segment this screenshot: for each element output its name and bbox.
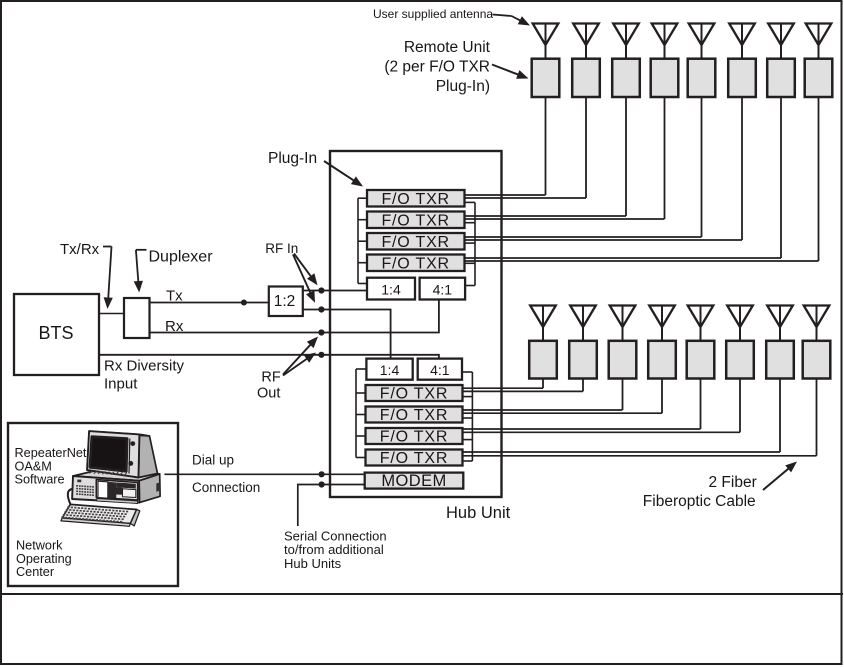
F/O TXR L4 bbox=[366, 450, 463, 467]
fiber pair from F/O TXR 6 (lower) bbox=[463, 410, 662, 413]
F/O TXR U1 bbox=[367, 190, 465, 208]
junction dot serial bbox=[319, 481, 325, 487]
junction dot RF In 1 bbox=[318, 287, 324, 293]
svg-text:Operating: Operating bbox=[16, 552, 72, 566]
F/O TXR U3 bbox=[367, 233, 465, 251]
fiber pair from F/O TXR 4 (upper) bbox=[465, 258, 819, 261]
fiber riser to remote unit B7 bbox=[779, 379, 781, 453]
F/O TXR U2 bbox=[367, 212, 465, 230]
svg-text:Dial up: Dial up bbox=[192, 453, 234, 468]
label Network Operating Center bbox=[16, 539, 72, 580]
left bus bracket (lower group) bbox=[356, 369, 366, 458]
remote unit antenna B6 (middle row) bbox=[726, 306, 754, 379]
label 2 Fiber Fiberoptic Cable with arrow bbox=[643, 462, 797, 511]
svg-text:F/O TXR: F/O TXR bbox=[381, 256, 449, 273]
NOC computer workstation bbox=[61, 431, 160, 526]
svg-text:Plug-In): Plug-In) bbox=[436, 78, 490, 95]
svg-text:F/O TXR: F/O TXR bbox=[381, 191, 449, 208]
F/O TXR U4 bbox=[367, 255, 465, 273]
combiner 4:1 (lower) bbox=[418, 359, 462, 380]
svg-text:F/O TXR: F/O TXR bbox=[380, 428, 448, 445]
right bus bracket (lower group) bbox=[462, 372, 472, 461]
svg-text:Rx: Rx bbox=[165, 318, 184, 335]
remote unit antenna A1 (top row) bbox=[532, 24, 560, 98]
fiber riser to remote unit B1 bbox=[542, 379, 544, 389]
svg-text:Network: Network bbox=[16, 539, 63, 553]
svg-text:Connection: Connection bbox=[192, 480, 260, 495]
svg-text:Input: Input bbox=[104, 376, 138, 393]
fiber pair from F/O TXR 8 (lower) bbox=[463, 452, 817, 456]
junction dot RF Out 1 bbox=[318, 329, 324, 335]
label Remote Unit (2 per F/O TXR Plug-In) with arrow bbox=[384, 39, 528, 95]
junction dot on Tx wire bbox=[241, 300, 247, 306]
remote unit antenna B8 (middle row) bbox=[803, 306, 831, 379]
svg-text:1:4: 1:4 bbox=[381, 282, 401, 298]
svg-text:2 Fiber: 2 Fiber bbox=[709, 474, 757, 491]
svg-text:4:1: 4:1 bbox=[433, 282, 453, 298]
remote unit antenna A7 (top row) bbox=[767, 24, 795, 98]
junction dot RF Out 2 bbox=[318, 352, 324, 358]
svg-text:MODEM: MODEM bbox=[381, 472, 446, 490]
F/O TXR L1 bbox=[366, 385, 463, 402]
label Serial Connection to/from additional Hub Units bbox=[284, 529, 387, 571]
svg-text:BTS: BTS bbox=[38, 323, 73, 343]
svg-text:Hub Units: Hub Units bbox=[284, 556, 342, 571]
fiber pair from F/O TXR 2 (upper) bbox=[465, 216, 665, 219]
F/O TXR L2 bbox=[366, 407, 463, 424]
remote unit antenna B4 (middle row) bbox=[648, 306, 676, 379]
fiber riser to remote unit A8 bbox=[818, 97, 820, 261]
BTS base transceiver station bbox=[14, 294, 99, 375]
fiber pair from F/O TXR 3 (upper) bbox=[465, 237, 743, 240]
remote unit antenna B3 (middle row) bbox=[609, 306, 637, 379]
svg-text:F/O TXR: F/O TXR bbox=[380, 407, 448, 424]
splitter 1:4 (lower) bbox=[366, 359, 412, 380]
label User supplied antenna with arrow bbox=[373, 7, 530, 26]
svg-text:F/O TXR: F/O TXR bbox=[381, 234, 449, 251]
svg-text:Rx Diversity: Rx Diversity bbox=[104, 358, 185, 375]
fiber riser to remote unit B6 bbox=[739, 379, 741, 433]
svg-text:RF In: RF In bbox=[265, 241, 298, 256]
right bus bracket (upper group) bbox=[465, 202, 476, 285]
svg-text:F/O TXR: F/O TXR bbox=[380, 385, 448, 402]
remote unit antenna A4 (top row) bbox=[651, 24, 679, 98]
modem MODEM bbox=[365, 472, 464, 490]
wire: 1:2 lower output to lower 1:4 (RF In 2) bbox=[303, 310, 391, 359]
fiber riser to remote unit B4 bbox=[661, 379, 663, 414]
network operating center box bbox=[8, 423, 178, 586]
fiber pair from F/O TXR 5 (lower) bbox=[463, 388, 583, 391]
remote unit antenna A6 (top row) bbox=[728, 24, 756, 98]
svg-text:Remote Unit: Remote Unit bbox=[404, 39, 491, 56]
fiber riser to remote unit A1 bbox=[545, 97, 547, 195]
svg-text:(2 per F/O TXR: (2 per F/O TXR bbox=[384, 59, 490, 76]
remote unit antenna B5 (middle row) bbox=[687, 306, 715, 379]
label Duplexer with arrow bbox=[134, 249, 214, 293]
fiber riser to remote unit B3 bbox=[622, 379, 624, 411]
svg-text:Fiberoptic Cable: Fiberoptic Cable bbox=[643, 493, 756, 510]
fiber riser to remote unit A5 bbox=[701, 97, 703, 237]
svg-text:RF: RF bbox=[261, 370, 280, 386]
svg-text:Out: Out bbox=[257, 386, 280, 402]
label RepeaterNet OA&M Software bbox=[15, 446, 87, 487]
fiber pair from F/O TXR 1 (upper) bbox=[465, 195, 587, 198]
svg-text:F/O TXR: F/O TXR bbox=[381, 213, 449, 230]
junction dot RF In 2 bbox=[318, 306, 324, 312]
fiber riser to remote unit B2 bbox=[582, 379, 584, 392]
wire Rx Diversity: BTS to lower 4:1 (RF Out 2) bbox=[99, 355, 439, 359]
svg-text:Plug-In: Plug-In bbox=[268, 150, 317, 167]
label Rx Diversity Input bbox=[104, 358, 185, 393]
F/O TXR L3 bbox=[366, 428, 463, 445]
svg-text:Tx/Rx: Tx/Rx bbox=[60, 241, 100, 258]
wire Tx: duplexer to 1:2 splitter bbox=[150, 302, 269, 304]
combiner 4:1 (upper) bbox=[420, 278, 466, 300]
svg-text:RepeaterNet: RepeaterNet bbox=[15, 446, 87, 460]
fiber riser to remote unit A2 bbox=[585, 97, 587, 198]
hub unit enclosure bbox=[330, 151, 502, 497]
fiber riser to remote unit A4 bbox=[664, 97, 666, 219]
label Plug-In with arrow to F/O TXR U1 bbox=[268, 150, 363, 187]
wire Rx: duplexer to upper 4:1 (RF Out 1) bbox=[150, 300, 439, 333]
fiber riser to remote unit B8 bbox=[816, 379, 818, 456]
label RF In with arrows to input dots bbox=[265, 241, 317, 303]
wire BTS to duplexer bbox=[99, 313, 124, 315]
svg-text:Duplexer: Duplexer bbox=[149, 249, 214, 266]
remote unit antenna A3 (top row) bbox=[612, 24, 640, 98]
left bus bracket (upper group) bbox=[358, 198, 367, 283]
remote unit antenna B2 (middle row) bbox=[569, 306, 597, 379]
svg-text:User supplied antenna: User supplied antenna bbox=[373, 7, 493, 21]
wire serial connection to MODEM bbox=[298, 485, 365, 527]
splitter 1:2 bbox=[269, 287, 303, 317]
label RF Out with arrows to output dots bbox=[257, 337, 318, 402]
remote unit antenna B1 (middle row) bbox=[529, 306, 557, 379]
remote unit antenna A2 (top row) bbox=[572, 24, 600, 98]
remote unit antenna A5 (top row) bbox=[688, 24, 716, 98]
fiber riser to remote unit A7 bbox=[780, 97, 782, 258]
svg-text:4:1: 4:1 bbox=[430, 362, 450, 378]
fiber riser to remote unit B5 bbox=[700, 379, 702, 430]
svg-text:Software: Software bbox=[15, 473, 65, 487]
svg-text:1:2: 1:2 bbox=[274, 293, 296, 310]
splitter 1:4 (upper) bbox=[367, 278, 415, 300]
junction dot dial-up bbox=[319, 471, 325, 477]
label Tx/Rx with arrow bbox=[60, 241, 113, 309]
svg-text:F/O TXR: F/O TXR bbox=[380, 450, 448, 467]
svg-text:Center: Center bbox=[16, 565, 55, 579]
svg-text:Hub Unit: Hub Unit bbox=[446, 504, 511, 522]
svg-text:OA&M: OA&M bbox=[15, 459, 52, 473]
remote unit antenna A8 (top row) bbox=[805, 24, 833, 98]
fiber riser to remote unit A3 bbox=[625, 97, 627, 216]
fiber pair from F/O TXR 7 (lower) bbox=[463, 429, 740, 432]
fiber riser to remote unit A6 bbox=[741, 97, 743, 240]
remote unit antenna B7 (middle row) bbox=[766, 306, 794, 379]
wire dial up connection: computer to MODEM bbox=[164, 473, 364, 475]
svg-text:1:4: 1:4 bbox=[380, 362, 400, 378]
svg-text:Tx: Tx bbox=[166, 288, 183, 305]
wire: 1:2 upper output to upper 1:4 (RF In 1) bbox=[303, 290, 367, 292]
duplexer bbox=[124, 298, 150, 338]
